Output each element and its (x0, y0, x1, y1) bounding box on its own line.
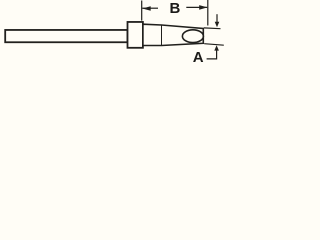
tip cone outline (143, 24, 203, 45)
A label leader line (207, 50, 217, 59)
background (0, 0, 230, 64)
dimension B line right segment (186, 6, 207, 8)
svg-text:A: A (193, 49, 204, 64)
B left arrowhead (142, 6, 150, 11)
dimension A top extension line (204, 27, 221, 30)
svg-text:B: B (169, 0, 180, 17)
shaft tube (5, 30, 127, 42)
dimension B right extension line (207, 0, 209, 26)
dimension A bottom extension line (204, 44, 224, 46)
A up arrowhead (214, 45, 219, 50)
B right arrowhead (199, 5, 207, 10)
dimension B left extension line (141, 1, 143, 21)
collar (128, 22, 143, 48)
cone-cylinder divider line (161, 25, 163, 46)
dimension B line left segment (142, 7, 158, 9)
tip face ellipse (182, 30, 203, 43)
A down arrowhead (215, 22, 220, 28)
dimension A down-arrow shaft (216, 14, 218, 23)
